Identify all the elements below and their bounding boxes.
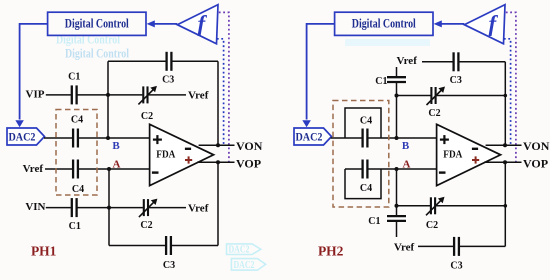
- svg-text:VIN: VIN: [25, 201, 45, 213]
- varactor C2 top PH1: [142, 85, 148, 104]
- svg-text:Vref: Vref: [394, 242, 415, 254]
- node A junction PH2: [395, 167, 399, 171]
- wire node B row PH2: [331, 137, 437, 139]
- node VIN junction PH1: [107, 206, 111, 210]
- varactor C2 bottom PH1: [143, 198, 149, 217]
- varactor C2 bottom PH2: [430, 196, 436, 215]
- capacitor C3 top PH1: [166, 51, 173, 72]
- wire vertical node A to bottom PH1: [108, 169, 110, 246]
- capacitor C3 bottom PH1: [165, 235, 172, 256]
- svg-text:VOP: VOP: [523, 156, 548, 170]
- capacitor C1 top PH2: [386, 76, 407, 83]
- digital control box PH2: [335, 12, 433, 35]
- wire node B to Vref vertical PH2: [396, 67, 398, 138]
- svg-text:C2: C2: [140, 220, 152, 231]
- svg-text:B: B: [402, 140, 410, 152]
- wire node B row PH1: [44, 137, 150, 139]
- svg-text:VON: VON: [236, 139, 263, 153]
- wire bottom feedback PH1: [109, 245, 218, 247]
- node C2 tap top PH2: [395, 94, 399, 98]
- capacitor C4 top PH1: [72, 128, 79, 149]
- svg-text:Digital Control: Digital Control: [65, 17, 129, 31]
- arrow from f to digital control PH1: [153, 23, 178, 25]
- capacitor C3 bottom PH2: [453, 236, 460, 257]
- node VOP junction PH1: [216, 160, 220, 164]
- digital control box PH1: [48, 12, 146, 35]
- wire right vertical bottom PH2: [504, 162, 506, 246]
- wire Vref to C3 top PH2: [422, 61, 505, 63]
- svg-text:C2: C2: [428, 108, 440, 119]
- node B junction PH1: [106, 136, 110, 140]
- capacitor C4 bottom PH1: [72, 159, 79, 180]
- clock source f triangle PH1: [177, 5, 218, 44]
- svg-text:C1: C1: [375, 76, 387, 87]
- svg-text:PH1: PH1: [31, 243, 57, 258]
- svg-text:VOP: VOP: [236, 156, 261, 170]
- wire VIN row PH1: [46, 207, 186, 209]
- svg-text:C4: C4: [71, 114, 83, 125]
- node C2 right junction bottom PH2: [504, 204, 508, 208]
- wire digital control to DAC2 PH2: [307, 24, 335, 120]
- svg-text:C4: C4: [72, 184, 84, 195]
- wire C2 row top PH2: [397, 95, 506, 97]
- arrow from f to digital control PH2: [440, 23, 465, 25]
- op-amp FDA U2: [437, 124, 501, 185]
- svg-text:PH2: PH2: [318, 243, 344, 258]
- svg-text:C3: C3: [163, 260, 175, 271]
- clock source f triangle PH2: [464, 5, 505, 44]
- node VON junction PH2: [503, 143, 507, 147]
- svg-text:C3: C3: [450, 75, 462, 86]
- dotted control line to VOP PH1: [219, 12, 229, 162]
- dotted control line to VON PH2: [504, 39, 511, 145]
- wire right vertical top PH2: [504, 62, 506, 145]
- wire node A to Vref vertical PH2: [396, 169, 398, 237]
- svg-text:Vref: Vref: [23, 163, 44, 175]
- dashed box around C4 caps PH2: [333, 101, 389, 208]
- wire VON output PH1: [199, 144, 235, 146]
- wire digital control to DAC2 PH1: [20, 24, 48, 120]
- wire VOP output PH2: [484, 161, 522, 163]
- wire bottom feedback vertical PH1: [217, 162, 219, 245]
- discharge loop around C4 bottom PH2: [345, 169, 381, 199]
- svg-text:VIP: VIP: [26, 89, 45, 101]
- wire C2 row bottom PH2: [397, 205, 506, 207]
- wire VIP row PH1: [46, 94, 186, 96]
- svg-text:Vref: Vref: [188, 89, 209, 101]
- svg-text:C3: C3: [162, 74, 174, 85]
- svg-text:B: B: [112, 140, 120, 152]
- capacitor C1 bottom PH1: [71, 197, 78, 218]
- capacitor C4 bottom PH2: [362, 159, 369, 180]
- node B junction PH2: [395, 136, 399, 140]
- svg-text:C4: C4: [360, 116, 372, 127]
- node C2 tap bottom PH2: [395, 204, 399, 208]
- svg-text:C1: C1: [69, 221, 81, 232]
- svg-text:VON: VON: [523, 139, 550, 153]
- wire node A row PH2: [345, 168, 437, 170]
- varactor C2 top PH2: [431, 86, 437, 105]
- svg-text:C3: C3: [450, 261, 462, 272]
- wire VON output PH2: [486, 144, 522, 146]
- svg-text:FDA: FDA: [443, 149, 462, 161]
- node VON junction PH1: [216, 143, 220, 147]
- node A junction PH1: [107, 167, 111, 171]
- wire VOP output PH1: [197, 161, 235, 163]
- svg-text:FDA: FDA: [156, 149, 175, 161]
- dotted control line to VON PH1: [217, 39, 224, 145]
- svg-text:DAC2: DAC2: [296, 130, 323, 144]
- svg-text:Vref: Vref: [188, 203, 209, 215]
- svg-text:DAC2: DAC2: [9, 130, 36, 144]
- dashed box around C4 caps PH1: [56, 110, 97, 196]
- svg-text:C1: C1: [368, 216, 380, 227]
- DAC2 block PH2: [294, 128, 332, 145]
- capacitor C1 top PH1: [71, 84, 78, 105]
- capacitor C3 top PH2: [453, 51, 460, 72]
- svg-text:C1: C1: [68, 72, 80, 83]
- node VIP junction PH1: [106, 93, 110, 97]
- dotted control line to VOP PH2: [506, 12, 516, 162]
- svg-text:DAC2: DAC2: [229, 243, 250, 255]
- svg-text:A: A: [113, 159, 121, 171]
- wire top feedback PH1: [108, 60, 218, 62]
- svg-text:A: A: [403, 158, 411, 170]
- DAC2 block PH1: [7, 128, 45, 145]
- svg-text:Digital Control: Digital Control: [352, 17, 416, 31]
- wire node A row PH1: [45, 168, 150, 170]
- svg-text:Digital Control: Digital Control: [65, 47, 129, 61]
- node C2 right junction top PH2: [504, 94, 508, 98]
- op-amp FDA U1: [150, 124, 214, 185]
- svg-text:C2: C2: [426, 220, 438, 231]
- svg-text:Vref: Vref: [397, 55, 418, 67]
- capacitor C1 bottom PH2: [386, 215, 407, 222]
- svg-text:C4: C4: [360, 183, 372, 194]
- wire vertical node B to top PH1: [107, 61, 109, 138]
- discharge loop around C4 top PH2: [345, 108, 381, 138]
- wire top feedback vertical PH1: [217, 61, 219, 145]
- node VOP junction PH2: [503, 160, 507, 164]
- svg-text:DAC2: DAC2: [234, 259, 255, 271]
- capacitor C4 top PH2: [362, 128, 369, 149]
- svg-text:C2: C2: [141, 111, 153, 122]
- wire Vref to C3 bottom PH2: [418, 245, 505, 247]
